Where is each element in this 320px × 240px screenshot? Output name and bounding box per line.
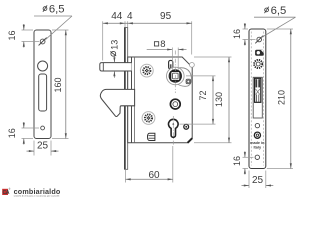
svg-text:60: 60	[148, 170, 160, 181]
hook slot verticals in body	[131, 57, 133, 143]
follower square hub 8mm	[169, 70, 181, 82]
hook slot	[253, 77, 262, 118]
dimension 210	[267, 29, 293, 169]
mid-left screw	[142, 112, 155, 125]
label d6,5 right	[254, 5, 296, 38]
svg-text:16: 16	[7, 30, 17, 40]
svg-text:160: 160	[53, 77, 63, 92]
combiarialdo logo mark	[2, 188, 10, 196]
follower cam lobe	[177, 68, 191, 87]
hidden dashed lines	[250, 32, 252, 166]
dimension 16 top right plate	[232, 23, 256, 46]
round hole	[38, 61, 48, 71]
latch icon (dark)	[255, 50, 264, 56]
svg-text:16: 16	[232, 29, 242, 39]
svg-text:95: 95	[160, 11, 172, 22]
svg-text:44: 44	[111, 11, 123, 22]
countersunk hole top	[257, 37, 262, 42]
svg-text:25: 25	[252, 175, 264, 186]
svg-text:6,5: 6,5	[49, 4, 65, 16]
dimension 25 bottom right plate	[242, 171, 274, 189]
thick bottom-right chamfer	[188, 138, 193, 143]
dimension d13	[110, 40, 120, 78]
follower boss circle	[167, 67, 185, 85]
knurled ring	[254, 60, 262, 68]
pivot small square with circle	[186, 79, 191, 84]
ring hole mid-right	[170, 99, 180, 109]
small circle	[255, 123, 259, 127]
dimension 72	[180, 76, 216, 124]
dimension 130	[194, 57, 232, 143]
svg-text:72: 72	[198, 90, 208, 100]
dimension 16 bottom-left	[7, 122, 39, 145]
small slot above follower	[169, 60, 173, 69]
small screw right of cylinder	[184, 124, 189, 129]
svg-text:16: 16	[232, 156, 242, 166]
small ring	[254, 132, 260, 138]
bottom hole	[255, 155, 259, 159]
corner circle at chamfer	[190, 63, 195, 68]
svg-text:®: ®	[9, 188, 11, 191]
hook bolt	[100, 89, 134, 116]
euro cylinder profile	[169, 119, 179, 137]
label d6,5 left	[34, 4, 72, 40]
svg-text:4: 4	[127, 11, 133, 22]
dimension row 44 4 95	[103, 11, 192, 60]
svg-text:CA: CA	[2, 190, 9, 196]
right faceplate outline	[249, 29, 266, 169]
barrel nut bottom-left	[147, 133, 154, 140]
svg-text:sistemi di chiusura e sicurezz: sistemi di chiusura e sicurezza per canc…	[14, 195, 60, 198]
dimension 16 top-left	[7, 24, 39, 48]
lock body outline	[128, 57, 193, 143]
spindle cylinder d13	[100, 63, 132, 71]
dimension 60	[126, 146, 173, 183]
center dash line through cylinder	[172, 116, 174, 146]
svg-text:Italy: Italy	[253, 146, 261, 150]
svg-text:25: 25	[37, 141, 49, 152]
svg-text:130: 130	[214, 92, 224, 107]
left faceplate outline	[34, 30, 51, 139]
center dash line vertical through follower	[174, 51, 176, 94]
top-left screw	[140, 64, 153, 77]
hook cross-section in slot	[255, 78, 261, 102]
svg-text:8: 8	[160, 39, 165, 50]
svg-text:210: 210	[277, 90, 287, 105]
dimension 16 bottom right plate	[232, 151, 253, 174]
vertical slot	[39, 74, 47, 111]
svg-text:13: 13	[110, 40, 120, 50]
dimension 160 right of left plate	[52, 30, 69, 139]
dimension 25 bottom of left plate	[27, 141, 59, 156]
countersunk hole top (d6,5)	[40, 39, 45, 44]
middle faceplate (210mm strip)	[125, 28, 128, 170]
svg-text:16: 16	[7, 128, 17, 138]
bottom small hole	[41, 126, 45, 130]
svg-text:combiarialdo: combiarialdo	[14, 187, 61, 196]
dimension square-8	[147, 39, 187, 70]
svg-text:6,5: 6,5	[271, 5, 287, 17]
